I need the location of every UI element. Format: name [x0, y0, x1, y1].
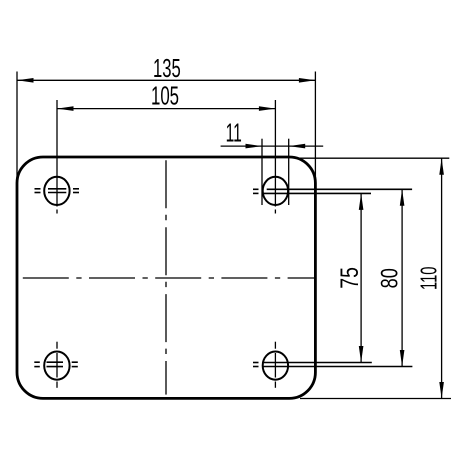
arrow 11 left (outside, pointing right) — [246, 144, 263, 149]
hole centerline bottom-right — [274, 342, 276, 388]
arrow 75 top — [359, 193, 364, 210]
arrow 110 top — [439, 158, 444, 175]
dimension 110 extension line top — [295, 157, 449, 159]
dimension 80 line — [401, 189, 403, 366]
arrow 135 left — [17, 78, 34, 83]
hole top-right — [263, 177, 288, 205]
dimension 11 line — [221, 145, 324, 147]
hole centerline top-right — [274, 100, 276, 214]
svg-text:110: 110 — [418, 267, 443, 290]
svg-text:11: 11 — [226, 119, 242, 148]
arrow 135 right — [299, 78, 316, 83]
slot lines top-right hole (extension lines for 80 and 75) — [253, 189, 412, 193]
arrow 11 right (outside, pointing left) — [289, 144, 306, 149]
hole bottom-right — [263, 352, 288, 380]
slot lines bottom-right hole (extension lines for 75 and 80) — [253, 363, 412, 367]
svg-text:105: 105 — [151, 81, 179, 111]
arrow 105 right — [259, 106, 276, 111]
dimension 110 extension line bottom — [300, 398, 451, 400]
hole top-left — [44, 177, 69, 205]
plate outline — [17, 157, 315, 398]
dimension 11 extension line left (hole tangent) — [261, 139, 263, 205]
hole bottom-left — [44, 352, 69, 380]
hole centerline top-left — [56, 100, 58, 214]
svg-text:75: 75 — [336, 267, 364, 289]
slot lines top-left hole — [35, 189, 80, 193]
arrow 80 bottom — [400, 350, 405, 367]
dimension 75 line — [360, 193, 362, 362]
svg-text:135: 135 — [153, 53, 181, 83]
arrow 80 top — [400, 189, 405, 206]
slot lines bottom-left hole — [34, 362, 78, 366]
dimension 110 line — [441, 158, 443, 398]
arrow 105 left — [57, 106, 74, 111]
horizontal centerline — [17, 277, 315, 279]
dimension 11 extension line right (hole tangent) — [288, 139, 290, 205]
dimension 135 extension line left — [16, 72, 18, 184]
arrow 110 bottom — [439, 382, 444, 399]
dimension 135 extension line right — [314, 72, 316, 184]
vertical centerline — [165, 157, 167, 395]
dimension 105 line — [57, 108, 275, 110]
dimension 135 line — [17, 79, 315, 81]
hole centerline bottom-left — [56, 342, 58, 388]
arrow 75 bottom — [359, 346, 364, 363]
svg-text:80: 80 — [375, 268, 403, 288]
